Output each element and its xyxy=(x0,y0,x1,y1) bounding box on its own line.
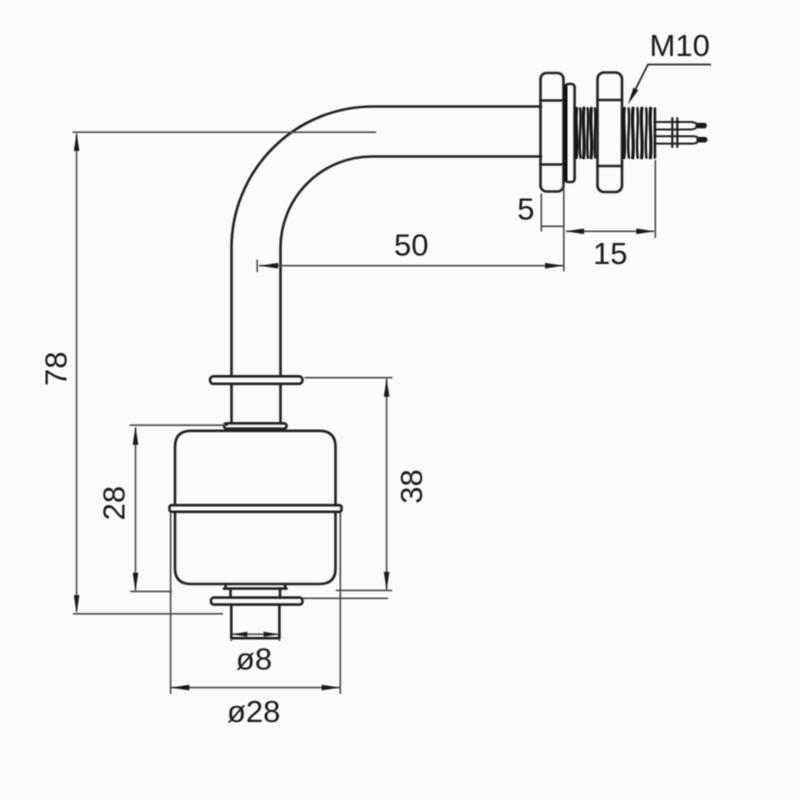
svg-text:M10: M10 xyxy=(650,28,710,63)
svg-text:78: 78 xyxy=(39,351,74,385)
svg-text:ø28: ø28 xyxy=(227,694,280,729)
svg-text:5: 5 xyxy=(517,192,534,227)
svg-text:15: 15 xyxy=(593,236,627,271)
svg-text:ø8: ø8 xyxy=(236,642,272,677)
svg-text:50: 50 xyxy=(394,228,428,263)
svg-text:28: 28 xyxy=(97,486,132,520)
svg-text:38: 38 xyxy=(394,469,429,503)
